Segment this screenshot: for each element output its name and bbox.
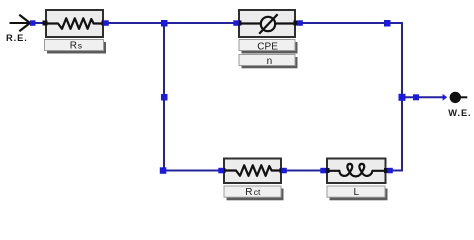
- wire R.E. to Rs: [33, 22, 45, 24]
- node before top-right corner: [384, 20, 391, 27]
- label box Rs: [45, 40, 107, 54]
- pin L left: [325, 168, 330, 173]
- node left of CPE: [233, 20, 239, 26]
- node junction right vertical: [399, 94, 406, 101]
- label box Rct: [224, 186, 284, 200]
- pin CPE left: [237, 21, 242, 26]
- pin CPE right: [294, 21, 299, 26]
- inductor L: [326, 159, 387, 184]
- label box CPE: [239, 40, 298, 54]
- svg-text:L: L: [354, 187, 360, 198]
- svg-text:R: R: [70, 40, 77, 51]
- terminal R.E.: [10, 15, 31, 32]
- wire CPE to top-right corner: [296, 22, 402, 24]
- node bottom-left corner: [160, 167, 167, 174]
- resistor Rct: [223, 159, 282, 184]
- pin Rs right: [102, 21, 107, 26]
- node mid left vertical: [161, 94, 168, 101]
- wire bottom: junction to Rct: [163, 170, 224, 172]
- svg-text:ct: ct: [254, 187, 261, 197]
- node junction top-left: [161, 20, 168, 27]
- node right of CPE: [297, 20, 303, 26]
- node left of Rct: [218, 168, 224, 174]
- pin Rct left: [221, 168, 226, 173]
- pin Rct right: [280, 168, 285, 173]
- resistor Rs: [45, 10, 104, 37]
- wire right vertical: [401, 22, 403, 172]
- svg-text:CPE: CPE: [257, 41, 278, 52]
- wire Rs to CPE: [104, 22, 239, 24]
- node right of Rs: [103, 20, 109, 26]
- wire to W.E.: [402, 96, 443, 98]
- node on W.E. branch: [413, 94, 419, 100]
- svg-text:R.E.: R.E.: [6, 33, 28, 43]
- wire left vertical: [163, 23, 165, 171]
- node left of L: [320, 168, 326, 174]
- pin Rs left: [43, 21, 48, 26]
- node right of Rct: [281, 168, 287, 174]
- pin L right: [384, 168, 389, 173]
- terminal W.E.: [443, 92, 468, 103]
- svg-text:W.E.: W.E.: [448, 108, 471, 118]
- constant phase element CPE: [238, 10, 296, 37]
- label box n: [239, 55, 298, 69]
- svg-text:R: R: [245, 187, 252, 198]
- svg-text:n: n: [267, 56, 273, 67]
- node right of L: [387, 168, 393, 174]
- svg-text:s: s: [78, 40, 82, 50]
- wire Rct to L: [281, 170, 327, 172]
- label box L: [327, 186, 388, 200]
- wire L to bottom-right corner: [385, 170, 402, 172]
- node at R.E.: [30, 20, 36, 26]
